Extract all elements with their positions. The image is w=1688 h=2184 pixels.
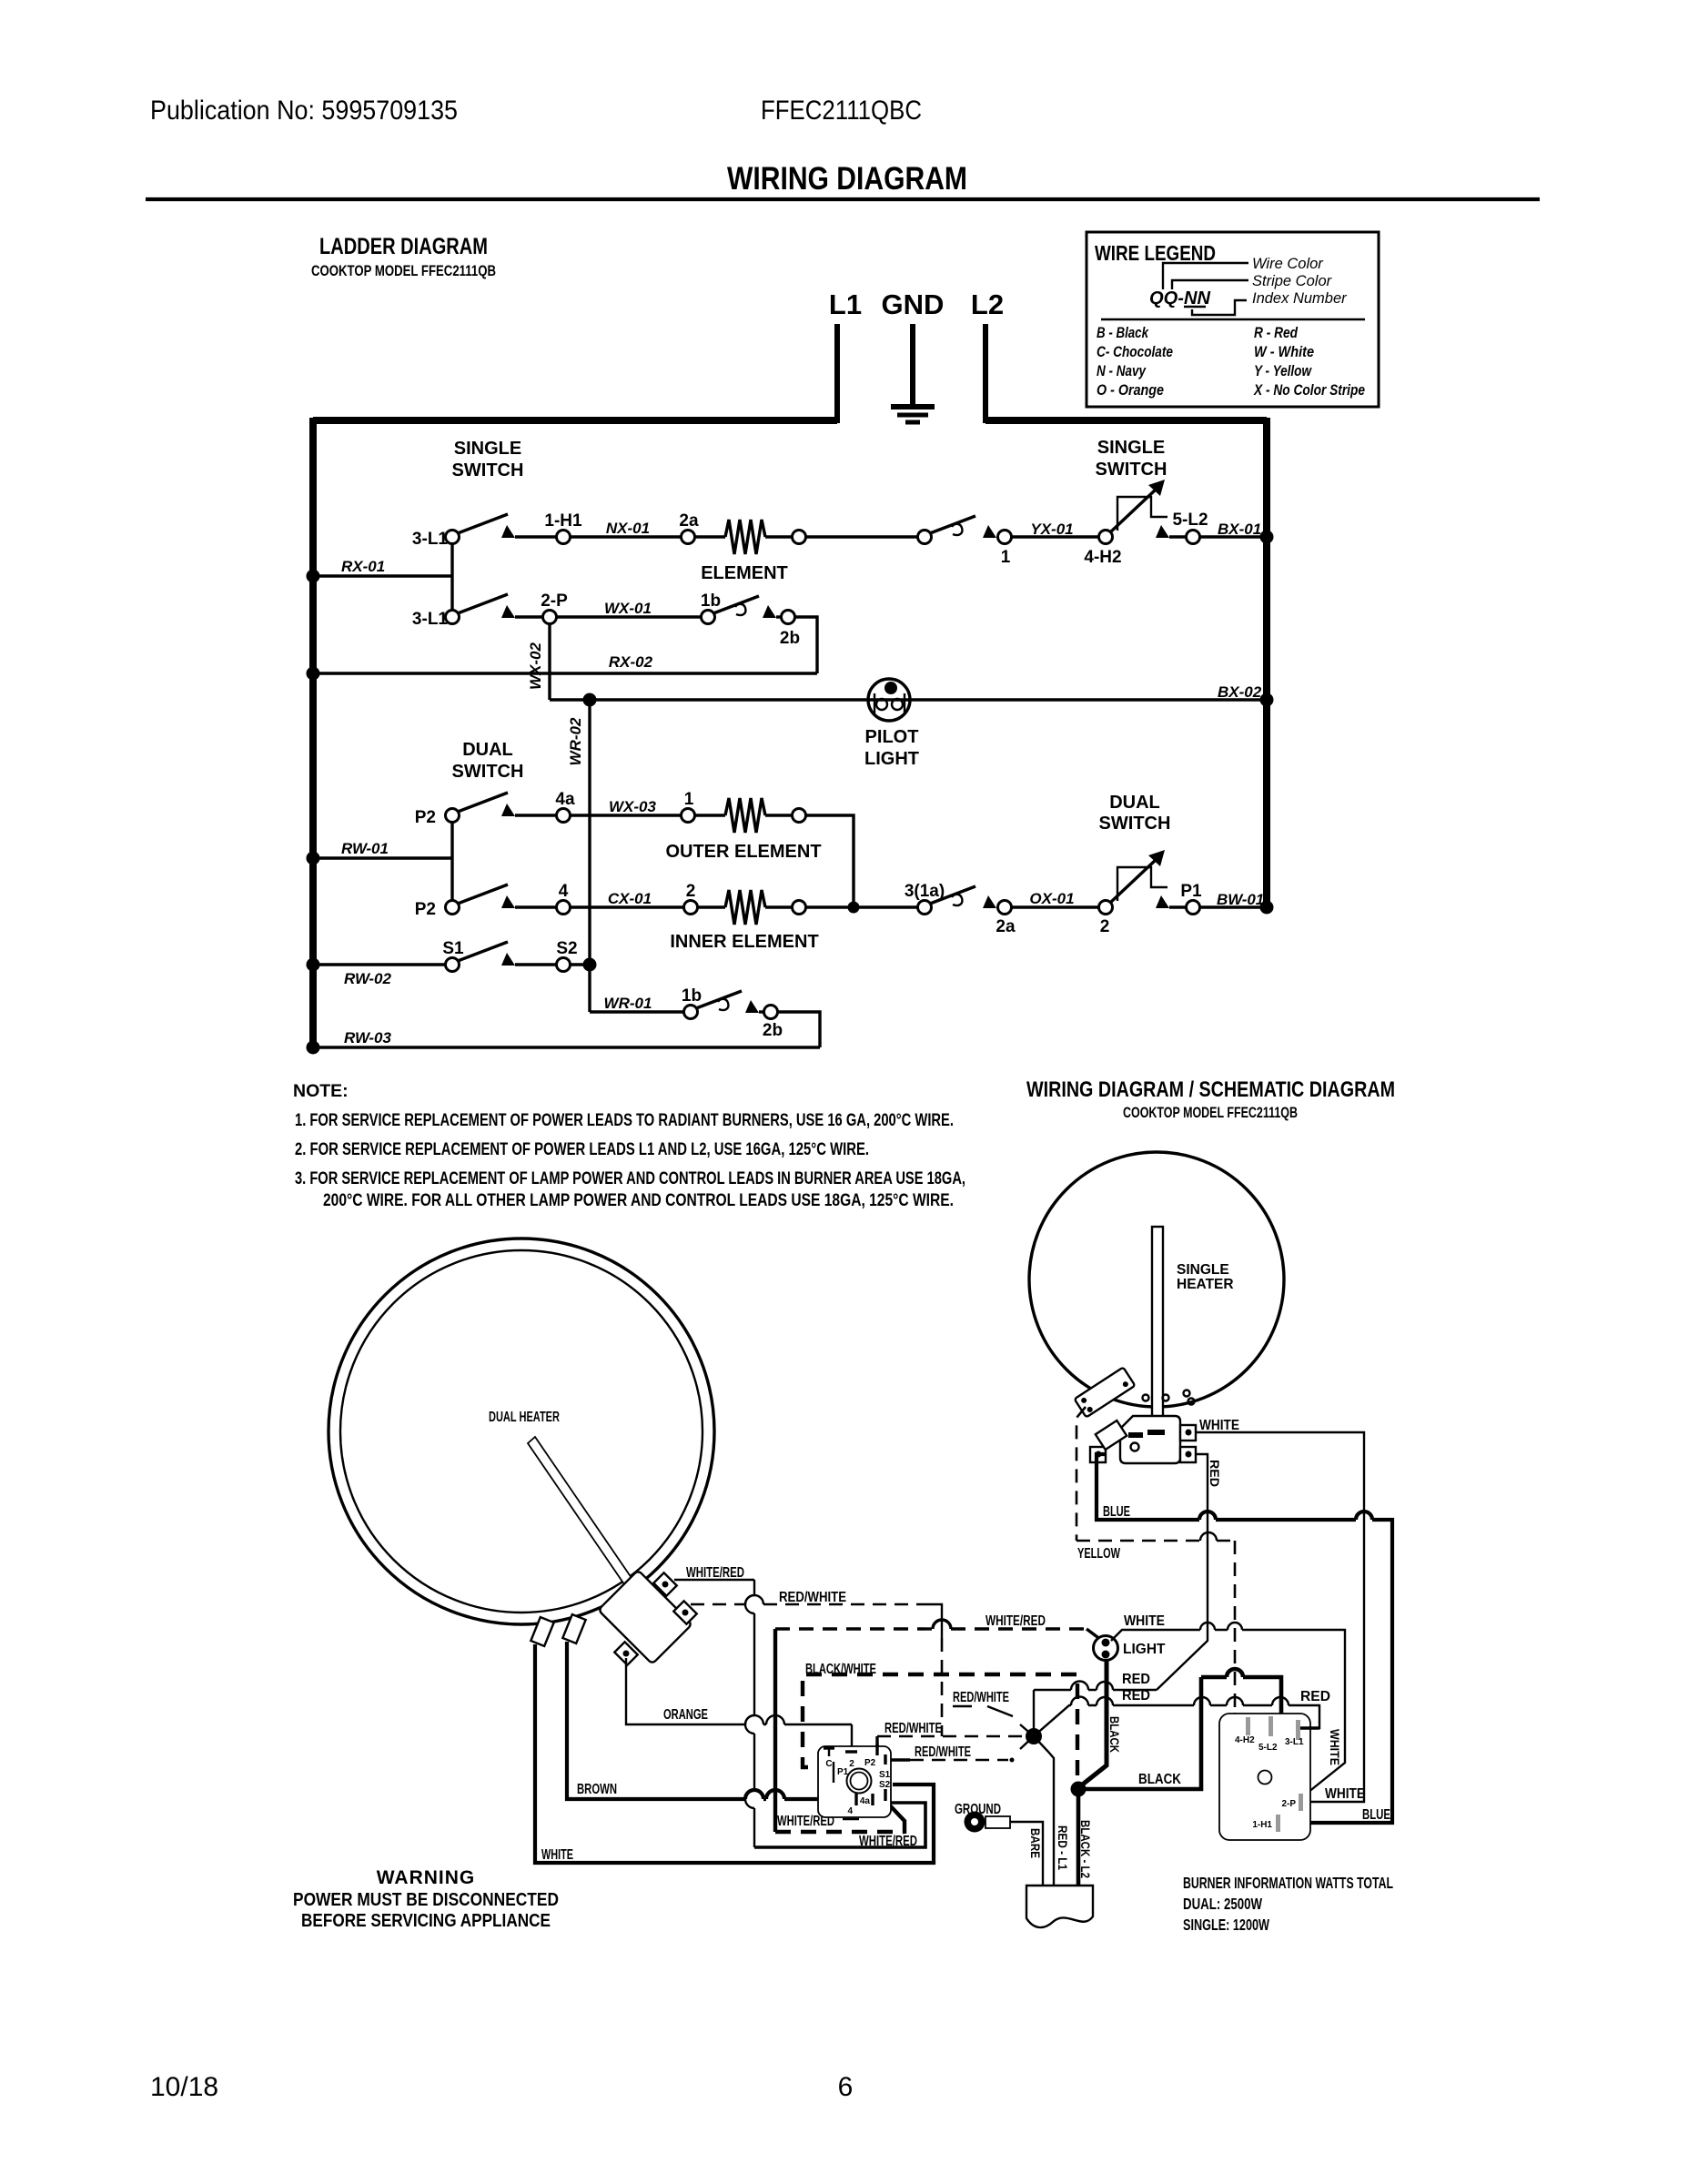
block terminal 4-H2	[1235, 1717, 1255, 1745]
svg-text:2: 2	[849, 1759, 854, 1769]
node RX-01 junction	[307, 570, 320, 583]
dual heater probe stem	[528, 1437, 632, 1584]
wire RED row2	[1034, 1688, 1330, 1736]
note 3	[295, 1168, 965, 1210]
svg-text:LIGHT: LIGHT	[864, 749, 919, 769]
svg-text:RED: RED	[1122, 1672, 1150, 1687]
wire WR-01	[590, 995, 683, 1012]
svg-text:L1: L1	[829, 288, 862, 320]
svg-text:BROWN: BROWN	[577, 1782, 617, 1797]
svg-text:HEATER: HEATER	[1177, 1277, 1234, 1292]
notes heading	[293, 1081, 349, 1101]
model number	[761, 96, 922, 126]
block terminal 5-L2	[1258, 1716, 1278, 1753]
svg-text:NOTE:: NOTE:	[293, 1081, 349, 1101]
svg-text:RED/WHITE: RED/WHITE	[953, 1690, 1009, 1705]
svg-text:SWITCH: SWITCH	[452, 460, 524, 480]
svg-text:P2: P2	[415, 808, 436, 827]
wire BLACK/WHITE dashed	[803, 1662, 1077, 1785]
svg-text:WX-01: WX-01	[604, 600, 652, 617]
wire RED/WHITE to P2	[877, 1721, 1026, 1754]
wire BLUE	[1097, 1454, 1392, 1823]
wire WHITE single heater	[1195, 1418, 1365, 1802]
svg-text:SWITCH: SWITCH	[452, 762, 524, 782]
terminal P2	[864, 1744, 877, 1768]
svg-text:6: 6	[838, 2072, 854, 2102]
svg-text:DUAL HEATER: DUAL HEATER	[489, 1410, 560, 1425]
wire L2 drop	[983, 324, 988, 423]
svg-text:WR-02: WR-02	[567, 717, 584, 765]
ladder diagram heading	[311, 234, 496, 279]
legend code sample QQ-NN	[1149, 288, 1211, 308]
switch dual P2-4	[415, 882, 571, 919]
node RW-02 junction	[307, 958, 320, 972]
wire RED-L1 label	[1056, 1825, 1070, 1870]
burner information	[1183, 1874, 1393, 1934]
terminal S2	[879, 1780, 891, 1801]
svg-text:S2: S2	[879, 1780, 891, 1790]
terminal block	[1219, 1714, 1310, 1840]
svg-text:1. FOR SERVICE REPLACEMENT OF: 1. FOR SERVICE REPLACEMENT OF POWER LEAD…	[295, 1110, 954, 1130]
svg-text:BX-01: BX-01	[1218, 521, 1261, 538]
svg-text:1: 1	[1001, 548, 1011, 567]
ground lug	[955, 1802, 1010, 1833]
wire WHITE from light	[1111, 1613, 1345, 1796]
wire left bus	[309, 418, 317, 1047]
svg-text:200°C WIRE. FOR ALL OTHER LAM: 200°C WIRE. FOR ALL OTHER LAMP POWER AND…	[323, 1190, 954, 1210]
node BW-01 junction	[1260, 901, 1274, 915]
pilot light	[864, 679, 919, 769]
label dual switch right	[1099, 793, 1171, 834]
block terminal 1-H1	[1252, 1815, 1280, 1832]
svg-text:Index Number: Index Number	[1252, 290, 1348, 307]
switch S1a single switch row1	[412, 511, 582, 549]
wire RED/WHITE from limiter	[691, 1590, 942, 1736]
single heater probe stem	[1152, 1227, 1163, 1417]
svg-text:L2: L2	[971, 288, 1004, 320]
svg-text:2-P: 2-P	[541, 591, 568, 611]
svg-text:BLUE: BLUE	[1362, 1807, 1390, 1823]
switch S1b single switch row2	[412, 591, 568, 629]
wire RED single heater	[1157, 1454, 1222, 1690]
svg-text:WIRING DIAGRAM / SCHEMATIC DIA: WIRING DIAGRAM / SCHEMATIC DIAGRAM	[1026, 1077, 1395, 1102]
switch dual S1-S2	[442, 939, 590, 972]
svg-text:ORANGE: ORANGE	[663, 1707, 708, 1723]
svg-text:2. FOR SERVICE REPLACEMENT OF: 2. FOR SERVICE REPLACEMENT OF POWER LEAD…	[295, 1139, 869, 1159]
indicator light	[1094, 1636, 1167, 1661]
svg-text:S1: S1	[442, 939, 464, 958]
svg-text:POWER MUST BE DISCONNECTED: POWER MUST BE DISCONNECTED	[293, 1890, 559, 1910]
wire 3-L1 column	[450, 543, 453, 611]
limiter lug C	[614, 1642, 637, 1664]
single heater arc terminal dots	[1143, 1390, 1195, 1405]
svg-text:RED/WHITE: RED/WHITE	[779, 1590, 846, 1605]
svg-text:BLUE: BLUE	[1103, 1504, 1130, 1520]
svg-text:R - Red: R - Red	[1254, 324, 1298, 341]
terminal 4	[847, 1794, 856, 1816]
inner element resistor	[670, 890, 818, 952]
svg-text:P2: P2	[864, 1758, 876, 1768]
limiter TL2 lug right bottom	[1180, 1447, 1196, 1462]
svg-text:QQ-NN: QQ-NN	[1149, 288, 1211, 308]
wire RED/WHITE pointer label	[953, 1690, 1013, 1716]
wire legend box	[1087, 232, 1379, 407]
footer page number	[838, 2072, 854, 2102]
block terminal 3-L1	[1285, 1720, 1304, 1747]
svg-text:WHITE: WHITE	[1199, 1418, 1239, 1433]
power rail label GND	[882, 288, 945, 320]
wire L1 drop	[834, 324, 840, 423]
wire WX-03	[571, 790, 695, 823]
legend pointer stripe color	[1172, 273, 1333, 289]
wire BARE	[1010, 1822, 1043, 1886]
svg-text:BURNER INFORMATION WATTS TOTAL: BURNER INFORMATION WATTS TOTAL	[1183, 1874, 1393, 1892]
wire CX-01	[571, 882, 698, 915]
svg-text:NX-01: NX-01	[606, 520, 650, 537]
limit switch row4	[905, 882, 1016, 936]
svg-text:DUAL: DUAL	[462, 740, 513, 760]
svg-text:3(1a): 3(1a)	[905, 882, 945, 901]
svg-text:S2: S2	[556, 939, 577, 958]
svg-text:WHITE/RED: WHITE/RED	[859, 1834, 917, 1849]
wire RED/WHITE from S1	[889, 1744, 1015, 1763]
node WR-02 junction	[583, 693, 597, 707]
X junction RED/WHITE node	[1020, 1690, 1054, 1886]
svg-text:O - Orange: O - Orange	[1097, 381, 1164, 399]
svg-text:2b: 2b	[763, 1021, 783, 1040]
svg-text:S1: S1	[879, 1770, 891, 1780]
wire GND drop	[910, 324, 915, 404]
svg-text:X - No Color Stripe: X - No Color Stripe	[1253, 381, 1365, 399]
legend separator	[1101, 318, 1365, 320]
limiter TL2 lug left	[1090, 1447, 1106, 1462]
title WIRING DIAGRAM	[727, 161, 967, 197]
svg-text:WARNING: WARNING	[377, 1867, 476, 1888]
element top resistor	[695, 520, 806, 583]
svg-text:WHITE: WHITE	[1325, 1786, 1365, 1802]
power rail label L2	[971, 288, 1004, 320]
dual heater circle	[329, 1239, 714, 1624]
svg-text:3. FOR SERVICE REPLACEMENT OF: 3. FOR SERVICE REPLACEMENT OF LAMP POWER…	[295, 1168, 965, 1188]
block hook 3-L1	[1300, 1726, 1319, 1729]
svg-text:3-L1: 3-L1	[412, 610, 449, 629]
svg-text:P2: P2	[415, 900, 436, 919]
outer element resistor	[665, 798, 821, 862]
block knob	[1258, 1771, 1272, 1785]
svg-text:SINGLE: 1200W: SINGLE: 1200W	[1183, 1916, 1269, 1934]
svg-text:CX-01: CX-01	[608, 890, 652, 907]
svg-text:C: C	[825, 1759, 832, 1769]
svg-text:1-H1: 1-H1	[1252, 1820, 1272, 1830]
svg-text:SINGLE: SINGLE	[1177, 1262, 1229, 1278]
svg-text:RED: RED	[1300, 1689, 1330, 1704]
svg-text:DUAL: DUAL	[1109, 793, 1160, 813]
limiter lug B	[673, 1601, 696, 1623]
wire OX-01	[1012, 890, 1098, 907]
label single switch left	[452, 439, 524, 480]
wire inner element to limit	[806, 905, 917, 908]
svg-text:RED - L1: RED - L1	[1056, 1825, 1070, 1870]
wire WR-02 column	[567, 700, 590, 1012]
node BX-01 junction	[1260, 531, 1274, 544]
terminal 2	[845, 1752, 857, 1769]
svg-text:BARE: BARE	[1028, 1828, 1043, 1858]
legend pointer wire color	[1163, 256, 1324, 289]
wire outer element return	[806, 815, 854, 907]
svg-text:3-L1: 3-L1	[1285, 1737, 1304, 1747]
node RX-02 junction	[307, 667, 320, 681]
title rule	[146, 197, 1540, 201]
node RW-03 junction	[307, 1041, 320, 1055]
svg-text:INNER ELEMENT: INNER ELEMENT	[670, 932, 818, 952]
terminal 4a	[860, 1794, 873, 1806]
svg-text:4-H2: 4-H2	[1084, 548, 1121, 567]
infinite switch P1	[1099, 850, 1203, 936]
node outer return junction	[848, 902, 860, 914]
wire WHITE/RED from limiter	[674, 1565, 925, 1849]
svg-text:2a: 2a	[679, 511, 699, 531]
wire RW-02 row	[313, 965, 445, 987]
svg-text:1-H1: 1-H1	[544, 511, 582, 531]
svg-text:2b: 2b	[780, 629, 800, 648]
svg-text:RX-01: RX-01	[341, 558, 385, 575]
svg-text:W - White: W - White	[1254, 343, 1314, 360]
svg-text:WHITE: WHITE	[1328, 1729, 1342, 1765]
svg-text:ELEMENT: ELEMENT	[701, 563, 788, 583]
wire YELLOW dashed	[1076, 1407, 1246, 1723]
wire right bus	[1263, 418, 1270, 907]
svg-text:P1: P1	[1180, 882, 1202, 901]
svg-text:2: 2	[1100, 917, 1110, 936]
wire BLACK bottom run	[1078, 1669, 1281, 1789]
terminal P1	[834, 1762, 849, 1783]
single heater limiter TL2	[1120, 1416, 1180, 1463]
supply cable break box	[1026, 1886, 1093, 1927]
svg-text:GND: GND	[882, 288, 945, 320]
svg-text:Wire Color: Wire Color	[1252, 256, 1324, 272]
note 1	[295, 1110, 954, 1130]
svg-text:WIRE LEGEND: WIRE LEGEND	[1095, 241, 1216, 265]
footer date	[150, 2072, 218, 2102]
svg-text:BLACK/WHITE: BLACK/WHITE	[805, 1662, 876, 1677]
infinite switch 4-H2	[1084, 480, 1208, 567]
dual heater lead lug right	[562, 1614, 585, 1643]
svg-text:1b: 1b	[682, 986, 702, 1006]
svg-text:BW-01: BW-01	[1217, 891, 1264, 908]
svg-text:FFEC2111QBC: FFEC2111QBC	[761, 96, 922, 126]
svg-text:BEFORE SERVICING APPLIANCE: BEFORE SERVICING APPLIANCE	[301, 1911, 551, 1931]
single heater bracket foot	[1096, 1421, 1127, 1450]
label single switch right	[1096, 438, 1167, 480]
wire RX-02	[313, 617, 817, 673]
label dual switch left	[452, 740, 524, 782]
svg-text:COOKTOP MODEL FFEC2111QB: COOKTOP MODEL FFEC2111QB	[311, 263, 496, 279]
svg-text:1b: 1b	[701, 591, 721, 611]
svg-text:Stripe Color: Stripe Color	[1252, 273, 1333, 289]
svg-text:RX-02: RX-02	[609, 653, 653, 671]
svg-text:COOKTOP MODEL FFEC2111QB: COOKTOP MODEL FFEC2111QB	[1123, 1105, 1298, 1121]
wire BLACK-L2	[1078, 1789, 1093, 1886]
wire top bus	[313, 417, 1267, 424]
svg-text:WHITE: WHITE	[541, 1847, 573, 1863]
svg-text:WX-03: WX-03	[609, 798, 657, 815]
svg-text:RW-03: RW-03	[344, 1029, 392, 1046]
wire BX-02	[550, 683, 1267, 701]
svg-text:YELLOW: YELLOW	[1077, 1546, 1120, 1562]
svg-text:RW-01: RW-01	[341, 840, 389, 857]
limiter lug A	[653, 1572, 676, 1595]
wire RX-01	[313, 558, 452, 576]
switch dual P2-4a	[415, 790, 575, 827]
switch box bottom tick	[843, 1818, 859, 1820]
dual control switch box	[818, 1746, 891, 1817]
terminal C	[824, 1748, 834, 1769]
wire WX-01	[557, 600, 701, 617]
svg-text:RED/WHITE: RED/WHITE	[884, 1721, 942, 1736]
wire YX-01	[1012, 521, 1098, 538]
svg-text:P1: P1	[837, 1767, 849, 1777]
svg-text:PILOT: PILOT	[865, 727, 919, 747]
svg-text:C- Chocolate: C- Chocolate	[1097, 343, 1173, 360]
svg-text:WIRING DIAGRAM: WIRING DIAGRAM	[727, 161, 967, 197]
svg-text:4: 4	[559, 882, 569, 901]
legend color list	[1097, 324, 1365, 399]
svg-text:WHITE: WHITE	[1124, 1613, 1165, 1629]
svg-text:WHITE/RED: WHITE/RED	[686, 1565, 744, 1581]
svg-text:BLACK: BLACK	[1138, 1772, 1182, 1787]
wire NX-01	[571, 511, 699, 544]
svg-text:SWITCH: SWITCH	[1096, 460, 1167, 480]
wire WHITE/RED dashed S2 run	[775, 1613, 1101, 1834]
svg-text:BX-02: BX-02	[1218, 683, 1262, 701]
svg-text:YX-01: YX-01	[1030, 521, 1073, 538]
svg-text:1: 1	[684, 790, 694, 809]
svg-text:4a: 4a	[555, 790, 575, 809]
svg-text:2a: 2a	[996, 917, 1016, 936]
single heater circle	[1029, 1152, 1284, 1407]
ground symbol	[891, 407, 935, 422]
terminal S1	[879, 1754, 891, 1780]
wire WHITE dual	[535, 1644, 934, 1863]
dual heater limiter TL1	[598, 1570, 692, 1663]
svg-text:WR-01: WR-01	[604, 995, 652, 1012]
svg-text:RW-02: RW-02	[344, 970, 392, 987]
node RW-01 junction	[307, 852, 320, 865]
wire BLACK from light	[1080, 1660, 1122, 1786]
svg-text:SWITCH: SWITCH	[1099, 814, 1171, 834]
limit switch WR-01 row	[682, 986, 783, 1040]
svg-text:2-P: 2-P	[1281, 1799, 1296, 1809]
legend pointer index number	[1192, 290, 1348, 315]
wire RW-01	[313, 840, 452, 858]
wire BW-01	[1200, 891, 1267, 908]
svg-text:B - Black: B - Black	[1097, 324, 1149, 341]
svg-text:SINGLE: SINGLE	[1097, 438, 1165, 458]
svg-text:OX-01: OX-01	[1029, 890, 1074, 907]
wire BX-01	[1200, 521, 1267, 538]
node S2 junction	[583, 958, 597, 972]
svg-text:5-L2: 5-L2	[1258, 1743, 1278, 1753]
svg-text:SINGLE: SINGLE	[454, 439, 521, 459]
wire P2 column	[450, 822, 453, 900]
svg-text:RED: RED	[1208, 1460, 1222, 1487]
limit switch row1	[806, 516, 1012, 567]
svg-text:WX-02: WX-02	[527, 642, 544, 690]
wire RW-03	[313, 1012, 820, 1047]
svg-text:LIGHT: LIGHT	[1123, 1642, 1166, 1657]
wire ORANGE	[626, 1658, 852, 1752]
svg-text:LADDER DIAGRAM: LADDER DIAGRAM	[319, 234, 488, 259]
svg-text:2: 2	[686, 882, 696, 901]
svg-text:BLACK - L2: BLACK - L2	[1078, 1820, 1093, 1878]
warning text	[293, 1867, 559, 1931]
limit switch row2	[701, 591, 800, 648]
node BX-02 junction	[1260, 693, 1274, 707]
svg-text:10/18: 10/18	[150, 2072, 218, 2102]
svg-text:OUTER ELEMENT: OUTER ELEMENT	[665, 842, 821, 862]
node black junction	[1071, 1782, 1087, 1797]
svg-text:Publication No: 5995709135: Publication No: 5995709135	[150, 96, 458, 126]
note 2	[295, 1139, 869, 1159]
svg-text:4a: 4a	[860, 1796, 871, 1806]
svg-text:RED/WHITE: RED/WHITE	[915, 1744, 971, 1760]
block terminal 2-P	[1281, 1794, 1303, 1811]
svg-text:DUAL: 2500W: DUAL: 2500W	[1183, 1895, 1262, 1913]
svg-text:3-L1: 3-L1	[412, 530, 449, 549]
svg-text:BLACK: BLACK	[1107, 1716, 1122, 1753]
svg-text:N - Navy: N - Navy	[1097, 362, 1147, 379]
limiter TL2 lug right top	[1180, 1425, 1196, 1441]
dual heater lead lug left	[531, 1617, 553, 1646]
svg-text:4-H2: 4-H2	[1235, 1735, 1255, 1745]
power rail label L1	[829, 288, 862, 320]
svg-text:4: 4	[847, 1806, 853, 1816]
schematic heading	[1026, 1077, 1395, 1121]
switch knob	[847, 1769, 872, 1794]
svg-text:WHITE/RED: WHITE/RED	[986, 1613, 1046, 1629]
single heater bracket	[1075, 1368, 1136, 1418]
publication number	[150, 96, 458, 126]
wire BROWN	[567, 1642, 854, 1799]
wire RED row1	[1034, 1672, 1157, 1690]
svg-text:RED: RED	[1122, 1688, 1150, 1704]
wire WX-02	[527, 624, 550, 700]
svg-text:Y - Yellow: Y - Yellow	[1254, 362, 1312, 379]
svg-text:5-L2: 5-L2	[1172, 511, 1208, 530]
